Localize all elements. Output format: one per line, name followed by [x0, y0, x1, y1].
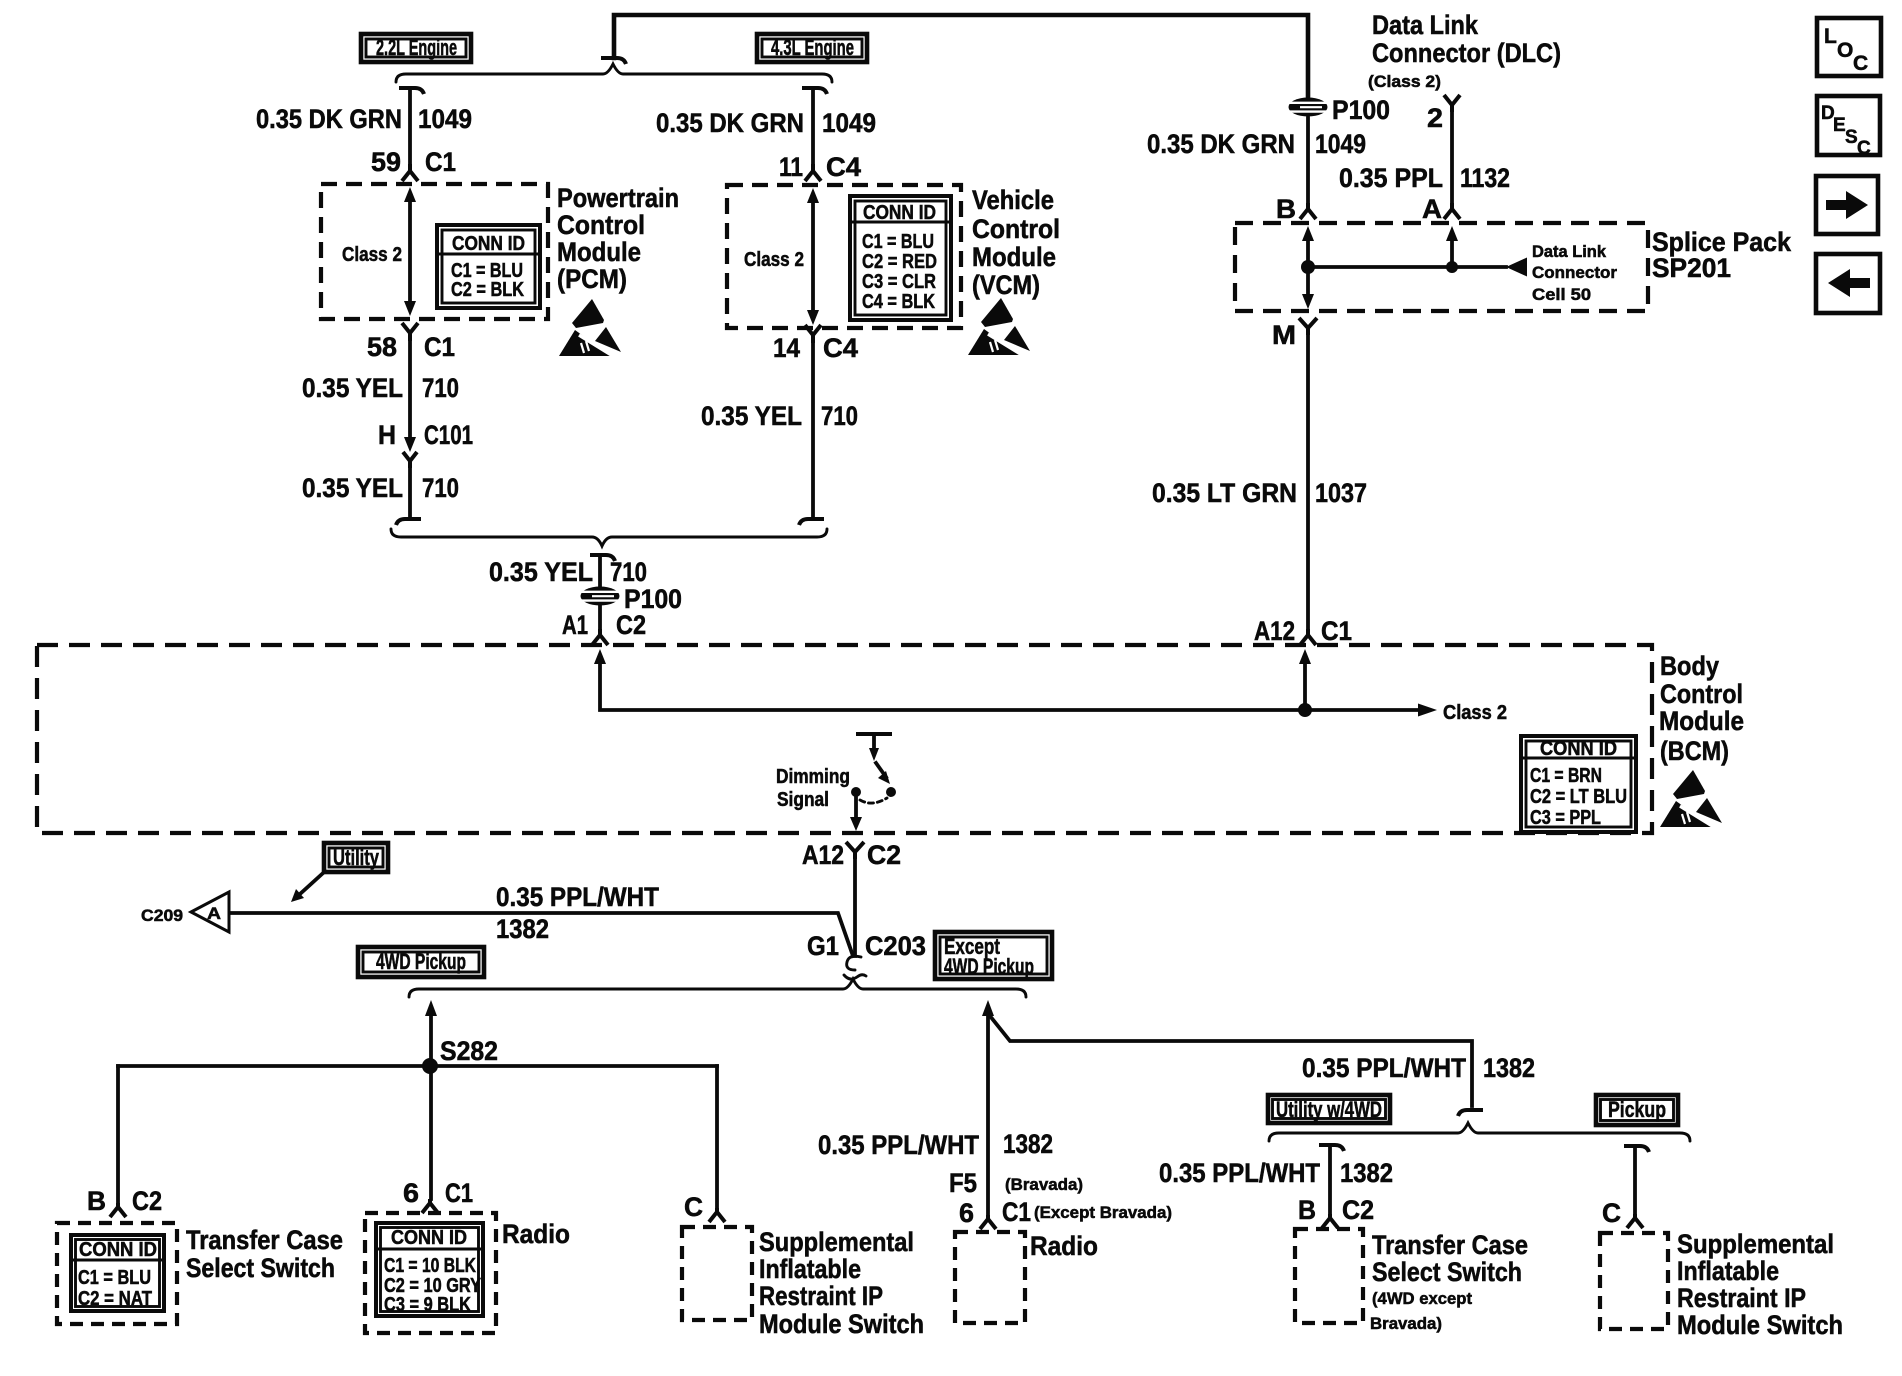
svg-text:E: E: [1833, 115, 1846, 136]
connector C1 at radio pin 6: [422, 1199, 438, 1213]
connector C2 at transfer case pin B (right): [1322, 1214, 1338, 1228]
entry arrow pin A: [1446, 226, 1458, 241]
svg-text:6: 6: [403, 1178, 419, 1208]
svg-text:710: 710: [422, 473, 459, 503]
connector C1 at BCM pin A12: [1300, 629, 1316, 645]
svg-text:Utility w/4WD: Utility w/4WD: [1276, 1097, 1382, 1122]
off-page triangle to Cell 50: [1506, 258, 1527, 277]
svg-text:C1: C1: [445, 1178, 473, 1208]
PCM dashed box: [321, 184, 548, 319]
svg-text:Select Switch: Select Switch: [1372, 1257, 1522, 1287]
svg-text:1049: 1049: [822, 108, 876, 138]
svg-text:A: A: [1422, 194, 1442, 224]
label Splice Pack SP201: [1652, 227, 1792, 283]
svg-text:C3 = CLR: C3 = CLR: [862, 271, 936, 293]
icon box previous arrow: [1816, 254, 1880, 313]
CONN ID table (transfer case left): [71, 1235, 164, 1311]
svg-text:4WD Pickup: 4WD Pickup: [376, 949, 466, 974]
wire 710 to P100: [598, 555, 602, 586]
svg-text:Cell 50: Cell 50: [1532, 285, 1591, 304]
svg-text:Select Switch: Select Switch: [186, 1253, 335, 1283]
svg-text:0.35 DK GRN: 0.35 DK GRN: [656, 108, 804, 138]
svg-text:Module: Module: [557, 237, 641, 267]
svg-text:Class 2: Class 2: [342, 244, 402, 266]
svg-text:(BCM): (BCM): [1660, 736, 1729, 766]
junction dot B: [1301, 260, 1315, 274]
svg-text:6: 6: [959, 1198, 974, 1228]
VCM dashed box: [727, 185, 961, 328]
ESD symbol (BCM): [1660, 770, 1722, 827]
connector C1 at radio pin 6 (right): [980, 1215, 996, 1229]
Class 2 internal arrow (PCM): [404, 187, 416, 316]
wire 1049 to PCM pin 59: [408, 88, 412, 165]
SIR IP module switch dashed box (left): [682, 1227, 752, 1320]
svg-text:0.35 YEL: 0.35 YEL: [302, 373, 403, 403]
svg-text:B: B: [1276, 194, 1296, 224]
label Data Link Connector (DLC) (Class 2): [1368, 10, 1561, 91]
svg-text:A12: A12: [1254, 616, 1295, 646]
svg-text:CONN ID: CONN ID: [79, 1239, 157, 1261]
svg-text:C2: C2: [1342, 1195, 1374, 1225]
svg-text:C2: C2: [616, 610, 646, 640]
SIR IP module switch dashed box (right): [1600, 1233, 1668, 1329]
svg-text:C4: C4: [826, 152, 861, 182]
box 2.2L Engine: [361, 34, 471, 62]
svg-text:C1: C1: [424, 332, 455, 362]
wire 710 from P100 to BCM pin A1: [598, 606, 602, 631]
connector half bar pickup wire top: [1624, 1146, 1649, 1152]
svg-text:Connector: Connector: [1532, 263, 1617, 282]
svg-text:710: 710: [610, 557, 647, 587]
CONN ID table (radio left): [376, 1223, 483, 1316]
exit arrow pin M: [1306, 267, 1310, 296]
connector half bar at PCM wire bottom: [396, 519, 421, 525]
svg-text:(4WD except: (4WD except: [1372, 1289, 1472, 1308]
svg-text:H: H: [378, 420, 396, 450]
svg-text:C2 = LT BLU: C2 = LT BLU: [1530, 786, 1627, 808]
connector half bar VCM wire top: [802, 88, 827, 94]
svg-text:(Class 2): (Class 2): [1368, 72, 1441, 91]
brace: PCM/VCM wires merge: [391, 529, 827, 546]
radio dashed box (right): [955, 1232, 1025, 1323]
svg-text:C1: C1: [1321, 616, 1352, 646]
wire 1382 down to radio (right): [986, 1013, 990, 1217]
wire 1049 from P100 to splice pack pin B: [1306, 118, 1310, 205]
connector half bar above merge brace: [1458, 1110, 1483, 1116]
svg-text:0.35 YEL: 0.35 YEL: [701, 401, 802, 431]
svg-text:59: 59: [371, 147, 401, 177]
svg-text:Module Switch: Module Switch: [1677, 1310, 1843, 1340]
CONN ID table (VCM): [850, 196, 951, 320]
wire 710 from VCM to splice brace: [811, 343, 815, 517]
entry arrow to brace (4WD pickup): [425, 1000, 437, 1016]
svg-text:Pickup: Pickup: [1608, 1097, 1666, 1122]
brace: split to utility w/4WD and pickup: [1269, 1123, 1690, 1141]
svg-text:0.35 DK GRN: 0.35 DK GRN: [1147, 129, 1295, 159]
label Dimming Signal: [776, 766, 850, 811]
leader arrow from Utility box to wire: [300, 874, 322, 894]
svg-text:Data Link: Data Link: [1532, 242, 1607, 261]
wire 1382 to SIR (right): [1633, 1146, 1637, 1216]
svg-text:Utility: Utility: [333, 845, 380, 870]
wire 1132 from DLC pin 2 to splice pack pin A: [1450, 112, 1454, 205]
wire 1382 from BCM to C203: [853, 859, 857, 956]
svg-text:C2 = BLK: C2 = BLK: [451, 279, 524, 301]
in-line connector C203 squiggle: [844, 956, 866, 979]
wire to SIR IP module switch: [715, 1066, 719, 1210]
ESD symbol (PCM): [559, 299, 621, 356]
svg-text:S: S: [1845, 127, 1858, 148]
label Data Link Connector Cell 50: [1532, 242, 1617, 304]
connector half bar PCM wire top: [399, 88, 424, 94]
svg-text:A: A: [207, 904, 221, 923]
svg-text:C1 = BLU: C1 = BLU: [78, 1267, 151, 1289]
connector C2 at transfer case pin B: [110, 1203, 126, 1217]
wire 710 from PCM to C101: [408, 341, 412, 438]
wire to transfer case select switch: [116, 1066, 120, 1203]
connector at splice pin A: [1444, 203, 1460, 219]
transfer case select switch dashed box (right): [1295, 1229, 1363, 1323]
svg-text:Inflatable: Inflatable: [1677, 1256, 1779, 1286]
label Vehicle Control Module (VCM): [972, 185, 1060, 300]
DLC pin 2 connector: [1444, 95, 1460, 112]
svg-text:Powertrain: Powertrain: [557, 183, 679, 213]
svg-text:C: C: [1857, 138, 1871, 159]
svg-text:Body: Body: [1660, 651, 1719, 681]
svg-text:0.35 YEL: 0.35 YEL: [489, 557, 593, 587]
connector at pin M: [1299, 318, 1317, 335]
svg-text:(VCM): (VCM): [972, 270, 1040, 300]
svg-text:C1 = 10 BLK: C1 = 10 BLK: [384, 1255, 476, 1277]
wire 1382 down to radio: [429, 1013, 433, 1199]
svg-text:C101: C101: [424, 420, 473, 450]
internal wire A12 to junction: [1303, 661, 1307, 710]
svg-text:1382: 1382: [496, 914, 549, 944]
svg-text:C1 = BRN: C1 = BRN: [1530, 765, 1602, 787]
box Utility w/4WD: [1268, 1095, 1390, 1123]
internal Class 2 arrow: [1305, 708, 1419, 712]
svg-text:C4: C4: [823, 333, 858, 363]
svg-text:C2 = NAT: C2 = NAT: [78, 1288, 152, 1310]
entry arrow at A12: [1299, 649, 1311, 664]
svg-text:M: M: [1272, 320, 1296, 350]
brace: engine split (2.2L / 4.3L): [396, 64, 832, 82]
connector half bar utility w/4WD wire top: [1319, 1145, 1344, 1151]
entry arrow to brace (except 4WD pickup): [982, 1000, 994, 1016]
svg-text:C: C: [1602, 1198, 1621, 1228]
svg-text:Restraint IP: Restraint IP: [1677, 1283, 1806, 1313]
icon box LOC: [1817, 18, 1881, 76]
svg-text:B: B: [1298, 1195, 1316, 1225]
svg-text:Control: Control: [1660, 679, 1743, 709]
svg-text:C1 = BLU: C1 = BLU: [862, 231, 934, 253]
connector C2 at BCM pin A12 (below): [846, 842, 864, 859]
box Pickup: [1596, 1095, 1678, 1125]
svg-text:4WD Pickup: 4WD Pickup: [944, 954, 1034, 979]
junction dot BCM: [1298, 703, 1312, 717]
svg-text:1049: 1049: [418, 104, 472, 134]
transfer case select switch dashed box (left): [57, 1223, 177, 1324]
svg-text:710: 710: [821, 401, 858, 431]
svg-text:Bravada): Bravada): [1370, 1314, 1442, 1333]
svg-text:0.35 PPL/WHT: 0.35 PPL/WHT: [818, 1130, 979, 1160]
svg-text:C4 = BLK: C4 = BLK: [862, 291, 935, 313]
svg-text:Class 2: Class 2: [1443, 702, 1507, 724]
BCM dashed box: [37, 645, 1652, 833]
svg-text:Signal: Signal: [777, 789, 829, 811]
splice pack dashed box: [1235, 223, 1648, 311]
connector C1 at PCM pin 59: [402, 164, 418, 181]
svg-text:P100: P100: [1332, 95, 1390, 125]
svg-text:0.35 PPL/WHT: 0.35 PPL/WHT: [1159, 1158, 1320, 1188]
svg-text:14: 14: [773, 333, 800, 363]
grommet P100 (DLC): [1289, 98, 1328, 117]
svg-text:C: C: [684, 1192, 703, 1222]
svg-text:G1: G1: [807, 931, 839, 961]
svg-text:0.35 PPL: 0.35 PPL: [1339, 163, 1443, 193]
CONN ID table (PCM): [437, 225, 540, 308]
svg-text:0.35 LT GRN: 0.35 LT GRN: [1152, 478, 1297, 508]
entry arrow at A1: [594, 649, 606, 664]
svg-text:Vehicle: Vehicle: [972, 185, 1054, 215]
svg-text:1132: 1132: [1460, 163, 1510, 193]
brace: C203 split to 4WD pickup / except 4WD pickup: [409, 979, 1026, 997]
connector C4 at VCM pin 14: [805, 325, 821, 343]
svg-text:4.3L Engine: 4.3L Engine: [771, 35, 854, 60]
wire 1049 to VCM pin 11: [811, 88, 815, 165]
wire 710 from C101 to splice brace: [408, 468, 412, 517]
svg-text:F5: F5: [949, 1168, 977, 1198]
connector half bar at top bus left end: [601, 58, 626, 64]
svg-text:Module: Module: [1659, 706, 1744, 736]
svg-text:C3 = PPL: C3 = PPL: [1530, 807, 1601, 829]
radio dashed box (left): [365, 1213, 496, 1333]
svg-text:C2: C2: [867, 840, 901, 870]
box 4.3L Engine: [757, 34, 867, 62]
svg-text:CONN ID: CONN ID: [863, 202, 936, 224]
svg-text:(PCM): (PCM): [557, 264, 627, 294]
connector C2 at BCM pin A1: [592, 629, 608, 645]
svg-text:Control: Control: [972, 214, 1060, 244]
svg-text:Supplemental: Supplemental: [759, 1227, 914, 1257]
svg-text:Transfer Case: Transfer Case: [1372, 1230, 1528, 1260]
svg-text:1037: 1037: [1315, 478, 1367, 508]
svg-text:Restraint IP: Restraint IP: [759, 1281, 883, 1311]
svg-text:(Except Bravada): (Except Bravada): [1034, 1203, 1172, 1222]
svg-text:0.35 YEL: 0.35 YEL: [302, 473, 403, 503]
wire 1037 from splice pack to BCM pin A12: [1306, 335, 1310, 629]
label Supplemental Inflatable Restraint IP Module Switch (right): [1677, 1229, 1843, 1340]
label Body Control Module (BCM): [1659, 651, 1744, 766]
Class 2 internal arrow (VCM): [807, 188, 819, 325]
label Powertrain Control Module (PCM): [557, 183, 679, 294]
svg-text:CONN ID: CONN ID: [1540, 738, 1617, 760]
svg-text:0.35 PPL/WHT: 0.35 PPL/WHT: [1302, 1053, 1466, 1083]
svg-text:(Bravada): (Bravada): [1005, 1175, 1083, 1194]
svg-text:1382: 1382: [1003, 1129, 1053, 1159]
svg-text:710: 710: [422, 373, 459, 403]
svg-text:Supplemental: Supplemental: [1677, 1229, 1834, 1259]
svg-text:L: L: [1824, 25, 1837, 48]
svg-text:0.35 DK GRN: 0.35 DK GRN: [256, 104, 402, 134]
svg-text:Transfer Case: Transfer Case: [186, 1225, 343, 1255]
svg-text:C3 = 9 BLK: C3 = 9 BLK: [384, 1294, 471, 1316]
svg-text:CONN ID: CONN ID: [391, 1227, 467, 1249]
svg-text:Radio: Radio: [502, 1219, 570, 1249]
svg-text:2.2L Engine: 2.2L Engine: [376, 35, 457, 60]
label Transfer Case Select Switch (4WD except Bravada): [1370, 1230, 1528, 1333]
svg-text:Class 2: Class 2: [744, 249, 804, 271]
svg-text:C: C: [1853, 52, 1868, 75]
connector C1 at PCM pin 58: [402, 323, 418, 341]
svg-text:SP201: SP201: [1652, 253, 1731, 283]
svg-text:1382: 1382: [1483, 1053, 1535, 1083]
icon box next arrow: [1816, 176, 1878, 234]
svg-text:Module Switch: Module Switch: [759, 1309, 924, 1339]
branch wire 1382 to C209: [229, 913, 853, 956]
svg-text:CONN ID: CONN ID: [452, 233, 525, 255]
svg-text:11: 11: [779, 152, 803, 182]
svg-text:1382: 1382: [1340, 1158, 1393, 1188]
label Supplemental Inflatable Restraint IP Module Switch (left): [759, 1227, 924, 1339]
svg-text:Radio: Radio: [1030, 1231, 1098, 1261]
svg-text:B: B: [87, 1186, 106, 1216]
svg-text:Control: Control: [557, 210, 645, 240]
junction dot A: [1446, 261, 1458, 273]
box Except 4WD Pickup: [935, 932, 1052, 979]
svg-text:Dimming: Dimming: [776, 766, 850, 788]
svg-text:A12: A12: [802, 840, 844, 870]
svg-text:C2 = RED: C2 = RED: [862, 251, 937, 273]
svg-text:Data Link: Data Link: [1372, 10, 1479, 40]
box 4WD Pickup: [358, 947, 484, 977]
connector half bar at VCM wire bottom: [799, 519, 824, 525]
svg-text:S282: S282: [440, 1036, 498, 1066]
svg-text:C2: C2: [132, 1186, 162, 1216]
connector half bar below merge brace: [590, 555, 615, 561]
connector C4 at VCM pin 11: [805, 164, 821, 181]
svg-text:Module: Module: [972, 242, 1056, 272]
icon box DESC: [1817, 96, 1880, 159]
connector at SIR pin C (right): [1627, 1214, 1643, 1228]
svg-text:2: 2: [1427, 103, 1443, 133]
internal wire A1 to junction: [600, 661, 1305, 710]
entry arrow pin B: [1302, 226, 1314, 241]
svg-text:0.35 PPL/WHT: 0.35 PPL/WHT: [496, 882, 659, 912]
svg-text:A1: A1: [562, 610, 588, 640]
branch wire 1382 to transfer case / SIR group: [990, 1016, 1472, 1106]
box Utility: [324, 843, 388, 872]
connector at SIR pin C (left): [709, 1208, 725, 1222]
splice bus wire: [1308, 265, 1506, 269]
connector at splice pin B: [1300, 203, 1316, 219]
ESD symbol (VCM): [968, 298, 1030, 355]
grommet P100 (center): [581, 587, 620, 606]
splice S282: [422, 1058, 438, 1074]
label Transfer Case Select Switch (left): [186, 1225, 343, 1283]
svg-text:C203: C203: [865, 931, 926, 961]
wire: Class 2 top bus from engine branch to DLC: [614, 15, 1308, 96]
svg-text:C209: C209: [141, 906, 183, 925]
svg-text:1049: 1049: [1315, 129, 1366, 159]
svg-text:C1: C1: [425, 147, 456, 177]
svg-text:Connector (DLC): Connector (DLC): [1372, 38, 1561, 68]
CONN ID table (BCM): [1521, 736, 1636, 832]
svg-text:O: O: [1837, 39, 1853, 62]
svg-text:Inflatable: Inflatable: [759, 1254, 861, 1284]
svg-text:58: 58: [367, 332, 397, 362]
svg-text:C1: C1: [1002, 1197, 1031, 1227]
dimming signal switch: [850, 734, 896, 831]
splice bus wire S282: [118, 1064, 717, 1068]
wire 1382 to transfer case (right): [1328, 1145, 1332, 1217]
